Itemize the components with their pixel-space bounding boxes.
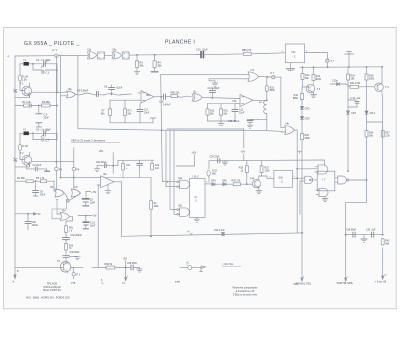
terminal SORTIE	[337, 277, 354, 286]
wire I4a out	[114, 182, 122, 237]
gate I4b	[281, 123, 294, 135]
wire bottom rail right segment	[346, 234, 384, 235]
capacitor C24 22uF series in rail	[210, 156, 221, 162]
resistor R45 100k	[150, 201, 160, 210]
resistor R4b 380	[15, 177, 33, 183]
caption bottom left	[26, 296, 70, 300]
gate I3a	[61, 87, 76, 98]
IC B1 I10-2	[190, 176, 205, 218]
capacitor C5 22nF	[36, 105, 50, 127]
resistor R88 27k	[242, 49, 252, 56]
wire B1 out to diodes	[205, 182, 212, 184]
resistor R80 22k	[166, 92, 181, 98]
ground under B1	[194, 217, 200, 222]
ground on rail	[222, 161, 228, 165]
wire to R3 node	[129, 54, 202, 55]
ground right of C28	[137, 268, 143, 273]
capacitor C13b 22uF	[83, 222, 96, 229]
wire main bottom rail	[122, 233, 303, 236]
terminal P2 arrow	[101, 268, 129, 286]
title PLANCHE I	[165, 40, 195, 46]
capacitor C9b 20nF	[33, 181, 46, 196]
capacitor C8 22uF	[104, 85, 123, 94]
wire bus vertical 3	[169, 131, 171, 210]
wire U1 out to P7	[305, 51, 328, 60]
diode CR5	[300, 117, 310, 134]
capacitor C10 .1uF	[348, 97, 361, 107]
label +5V arrow left	[15, 213, 41, 217]
resistor R26 56k	[365, 131, 374, 144]
capacitor C36 56uF	[346, 230, 357, 238]
IC B2 I5A-2	[270, 170, 293, 187]
wire left border	[14, 56, 16, 267]
ground near I7a input	[209, 81, 218, 86]
gate I7c top	[315, 165, 328, 174]
ground under R3	[134, 67, 140, 74]
text mark near border top	[8, 56, 10, 59]
capacitor C8b 10uF	[82, 199, 95, 206]
wire I7e out right	[347, 170, 366, 180]
diode on rail	[214, 230, 225, 236]
terminal SIGNAL P1/1	[296, 277, 313, 286]
resistor R3 56k	[135, 55, 144, 68]
wire I6a inputs from bus	[162, 181, 177, 187]
node mark on rail x191	[187, 231, 192, 235]
resistor R36 1k	[239, 161, 249, 173]
capacitor C16 .22uF	[196, 49, 212, 58]
ground under I7d	[322, 197, 328, 202]
transistor T3	[303, 80, 321, 95]
wire to I7c input	[297, 168, 317, 178]
+12V T symbol	[345, 52, 354, 55]
resistor R23 820k	[265, 77, 275, 92]
capacitor C31 small	[63, 255, 78, 261]
wire collector junction dots	[302, 66, 383, 68]
wire T5 collector to B2	[259, 173, 274, 179]
ground under C32 wire	[94, 166, 100, 172]
resistor R41 470k	[346, 82, 375, 89]
text oscillateur block	[43, 283, 61, 293]
capacitor C2 3-40pF	[33, 59, 57, 68]
wire T4 emitter down right bus	[382, 95, 384, 234]
wire x366 down L to sortie	[346, 143, 367, 235]
transistor T5	[250, 176, 261, 191]
wire I7a inputs	[161, 74, 247, 80]
node X left border osc1	[14, 89, 18, 94]
resistor R18 820k	[365, 67, 375, 80]
IC U1 I51-2	[285, 44, 304, 63]
wire R19 down	[347, 80, 349, 111]
resistor R19 39k	[347, 67, 356, 80]
resistor R6 1M vertical	[18, 145, 28, 158]
text CH mark	[294, 283, 299, 286]
node PT test point	[53, 49, 59, 58]
transistor T2	[20, 152, 32, 167]
wire middle box top line A	[78, 129, 266, 131]
node P7 circle	[326, 59, 335, 63]
transistor T6	[57, 260, 71, 274]
transistor T4	[375, 67, 390, 95]
top right rail	[300, 66, 383, 67]
gate I2c	[192, 90, 202, 101]
opamp I5a feedback wires	[138, 92, 141, 94]
resistor R28 680k	[301, 134, 311, 140]
diode CR8	[222, 180, 233, 185]
gate I3d	[56, 200, 70, 221]
wire I3d out down	[52, 202, 73, 225]
resistor R4 56k	[153, 54, 162, 67]
op-amp I4a	[61, 173, 114, 188]
wire bus vertical 1	[161, 74, 163, 181]
resistor R31 1k	[65, 226, 74, 237]
transistor T1	[20, 83, 32, 98]
wire P5 to I4b input	[275, 77, 281, 128]
diode CR4	[365, 111, 376, 131]
gate I3b	[50, 181, 64, 197]
gate I6b	[176, 205, 190, 217]
resistor R30 7k	[65, 244, 81, 255]
wire x151 vertical	[150, 178, 151, 238]
capacitor C22	[137, 160, 143, 169]
gate I2b	[112, 48, 129, 59]
gate I7e output	[335, 176, 349, 184]
gate I3c	[71, 186, 80, 197]
wire bus vertical 2	[165, 131, 167, 186]
node jack circle bottom	[175, 263, 199, 284]
wire to R88	[212, 53, 243, 56]
wire T down	[348, 54, 350, 67]
wire L2 column to I4b rail	[267, 120, 282, 132]
wire +5V rail right segment	[209, 160, 324, 165]
capacitor C4 20nF series on T2 lower path	[27, 165, 50, 171]
wire top rail	[15, 54, 88, 57]
ground under U1	[286, 63, 294, 71]
resistor R71 56k	[124, 100, 133, 115]
resistor R35 270	[232, 180, 253, 185]
ground rail under I5a	[110, 115, 156, 123]
wire bus vertical 4	[173, 131, 175, 213]
capacitor C13 22uF	[232, 104, 245, 116]
label +5V mid right	[176, 151, 196, 167]
ground rail under I5b	[208, 115, 236, 125]
resistor R12 820k	[312, 67, 322, 81]
gate I7d bottom	[316, 188, 328, 196]
crystal Y1	[20, 59, 33, 66]
inductor L2	[253, 91, 267, 113]
node P3 circle	[55, 167, 63, 171]
op-amp I5b	[232, 95, 253, 107]
wire T1 emitter right	[15, 92, 64, 98]
gate I7a	[245, 69, 259, 82]
resistor R10 56k	[301, 67, 310, 80]
wire B2 out	[293, 176, 305, 179]
title GX 955A PILOTE	[24, 41, 80, 47]
capacitor C9a 0.68uF on I3a output	[76, 90, 99, 97]
capacitor C17 10uF	[137, 104, 150, 117]
terminal A arrow	[12, 267, 19, 283]
wire verticals from osc to gates	[56, 55, 78, 190]
capacitor C28 68nF	[127, 263, 140, 270]
resistor R7 56k	[101, 100, 138, 115]
resistor R13 56k	[206, 104, 236, 116]
wire wavy to opamp I5a	[98, 93, 131, 95]
wire R36 bottom to base	[246, 173, 248, 185]
wire x297 down	[296, 178, 298, 233]
minus mark near signal column	[298, 151, 302, 153]
ground under I4a	[105, 185, 111, 194]
resistor R1 3.3k	[15, 101, 42, 107]
wire I7b out to I7 box	[311, 179, 317, 181]
wire wavy to gate I2c	[177, 96, 191, 97]
capacitor C30 300uF	[63, 235, 83, 244]
text voir tex	[223, 262, 234, 266]
capacitor C18 0.47uF	[154, 94, 171, 106]
capacitor C32 series	[96, 161, 118, 168]
op-amp I5a	[138, 91, 154, 104]
node P5 circle	[259, 72, 276, 79]
ground right of T6	[75, 257, 81, 260]
node P4 circle	[72, 167, 80, 171]
capacitor C14 68uF	[208, 87, 220, 98]
wire gate link	[104, 54, 112, 56]
diode C10a	[330, 80, 346, 86]
node X left border osc2	[14, 158, 18, 163]
capacitor C6 3-40pF	[33, 129, 57, 138]
resistor R27 3.3k	[381, 122, 390, 137]
resistor R1M vertical	[18, 75, 28, 88]
label -5V	[78, 215, 97, 222]
wire P7 down to rail	[326, 62, 328, 67]
ground under T3	[311, 95, 317, 98]
resistor R5 1.7k	[33, 177, 54, 183]
gate I7b nand	[305, 176, 313, 183]
wire x113 vertical to I4a	[112, 153, 114, 174]
ground under T5	[256, 191, 262, 194]
resistor R21	[122, 160, 131, 170]
capacitor C7	[42, 138, 50, 143]
text note block	[233, 287, 258, 297]
resistor R2 680k	[42, 101, 58, 107]
wire I4b output to x297 bus	[294, 130, 297, 178]
wire R18 down	[366, 80, 368, 111]
wire signal column down	[301, 140, 303, 233]
IC I7 flip-flop box	[317, 171, 335, 191]
node CR1 circle	[64, 193, 80, 202]
underline voir tex	[222, 265, 241, 267]
wire +B vertical down	[382, 248, 384, 276]
resistor R22	[151, 160, 160, 170]
ground under R4	[151, 67, 158, 71]
wire link y122	[367, 121, 383, 123]
crystal Y2	[20, 128, 33, 135]
resistor R16 680k	[293, 87, 304, 100]
resistor R32 680	[207, 161, 218, 183]
capacitor C15 68uF	[228, 114, 267, 124]
capacitor C3	[42, 70, 50, 74]
wire left rail to T6	[15, 266, 60, 268]
ground mid rail right	[361, 235, 367, 243]
wire R88 to U1	[251, 51, 285, 54]
label +5V right of I3c	[86, 191, 97, 199]
osc1 cell wires	[20, 63, 58, 92]
diode CR6	[211, 180, 223, 185]
wire I6b inputs from bus	[170, 209, 177, 214]
resistor R50 5k	[71, 263, 132, 269]
osc2 cell wires	[20, 133, 57, 145]
capacitor C08 100uF	[25, 213, 39, 230]
ground under C15	[247, 122, 253, 128]
gate I6a	[176, 177, 190, 188]
resistor R15 56k	[220, 104, 229, 116]
label +5V bottom mid	[123, 258, 128, 268]
diode CR7	[346, 111, 356, 171]
wire signal vertical down	[301, 232, 302, 278]
caption mode 2 directions	[71, 139, 120, 143]
capacitor C35 .1uF	[366, 230, 376, 238]
resistor R42 68k	[381, 239, 390, 246]
node P1 circle	[71, 267, 81, 285]
wire x300 gate input lower	[300, 181, 305, 215]
wire I4a top feedback	[106, 170, 152, 178]
wire mid supply rail	[118, 160, 154, 165]
wire I2c to I5b	[202, 97, 240, 98]
resistor R33 120k	[260, 160, 270, 172]
wire x98 vertical long	[97, 185, 99, 267]
flag symbol	[199, 266, 206, 272]
diode CR3	[300, 100, 310, 117]
wire sortie vertical down	[345, 234, 346, 278]
wire T2 emitter right	[15, 161, 74, 167]
wire middle box top line B	[167, 129, 245, 161]
gate I2a	[87, 48, 104, 59]
terminal +B	[375, 275, 388, 284]
label +5V mid left	[99, 149, 104, 153]
